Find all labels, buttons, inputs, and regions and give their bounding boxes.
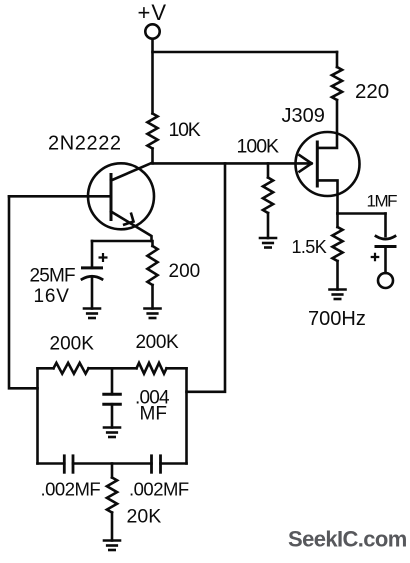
ground (.004MF) [104, 426, 120, 429]
resistor 10K [147, 114, 157, 149]
svg-text:20K: 20K [127, 506, 162, 528]
resistor 20K [111, 464, 114, 478]
capacitor C 25MF positive lead [91, 241, 94, 268]
JFET source lead [317, 180, 337, 213]
resistor 220 [332, 67, 342, 100]
wire from +V terminal down [151, 39, 154, 114]
transistor Q1 2N2222 body [88, 163, 154, 229]
capacitor .004MF [111, 368, 114, 394]
JFET U1 J309 body [296, 132, 360, 196]
resistor 200K left [54, 363, 89, 374]
capacitor C 1MF curved plate [384, 214, 387, 237]
resistor 100K [267, 163, 270, 177]
svg-text:1.5K: 1.5K [292, 237, 327, 257]
wire 220 to JFET drain [317, 100, 337, 148]
+V terminal [145, 24, 159, 38]
wire emitter node to 25MF [92, 241, 153, 246]
capacitor C 1MF straight plate [376, 245, 395, 248]
ground (100K resistor) [260, 237, 276, 240]
svg-text:200: 200 [169, 261, 201, 282]
svg-text:2N2222: 2N2222 [48, 133, 122, 155]
svg-text:.002MF: .002MF [41, 479, 101, 500]
svg-text:25MF: 25MF [30, 266, 76, 287]
svg-text:16V: 16V [34, 286, 70, 307]
Q1 base bar [110, 175, 113, 220]
ground (25MF) [84, 307, 100, 310]
svg-text:220: 220 [355, 80, 389, 103]
JFET gate arrow [300, 155, 312, 171]
svg-text:100K: 100K [237, 136, 280, 158]
ground (20K) [104, 539, 120, 542]
twin-T top rail wires [38, 367, 187, 370]
ground (200 resistor) [145, 307, 161, 310]
capacitor .002MF right [150, 456, 153, 473]
twin-T bottom rail wires [38, 462, 187, 465]
svg-text:SeekIC.com: SeekIC.com [288, 527, 407, 552]
svg-text:700Hz: 700Hz [308, 308, 366, 330]
wire gate (node from collector) [153, 162, 312, 165]
resistor 1.5K [336, 214, 339, 228]
JFET channel bar [316, 142, 319, 186]
capacitor .002MF left [63, 456, 66, 473]
svg-text:.002MF: .002MF [129, 479, 189, 500]
resistor 200 [147, 246, 157, 285]
svg-text:+V: +V [138, 0, 168, 25]
wire down from gate node to twin-T [187, 163, 226, 391]
wire Q1 base [9, 195, 111, 198]
output terminal [378, 273, 393, 288]
capacitor C 25MF curved plate [82, 276, 102, 279]
wire down to 220 [336, 52, 339, 67]
svg-text:200K: 200K [50, 334, 95, 355]
feedback wire from base to twin-T [9, 196, 38, 388]
wire top rail [153, 51, 338, 54]
twin-T left vertical wire [36, 368, 39, 463]
Q1 collector lead [111, 163, 153, 181]
svg-text:10K: 10K [169, 119, 201, 141]
twin-T right vertical wire [185, 368, 188, 463]
ground (1.5K) [330, 288, 346, 291]
wire 10K bottom to collector node [151, 149, 154, 164]
wire source node [338, 212, 386, 215]
resistor 200K right [137, 363, 167, 374]
Q1 emitter lead with arrow [111, 212, 152, 242]
svg-text:1MF: 1MF [367, 192, 398, 211]
svg-text:200K: 200K [136, 332, 180, 353]
svg-text:MF: MF [140, 404, 167, 425]
svg-text:J309: J309 [282, 105, 325, 127]
